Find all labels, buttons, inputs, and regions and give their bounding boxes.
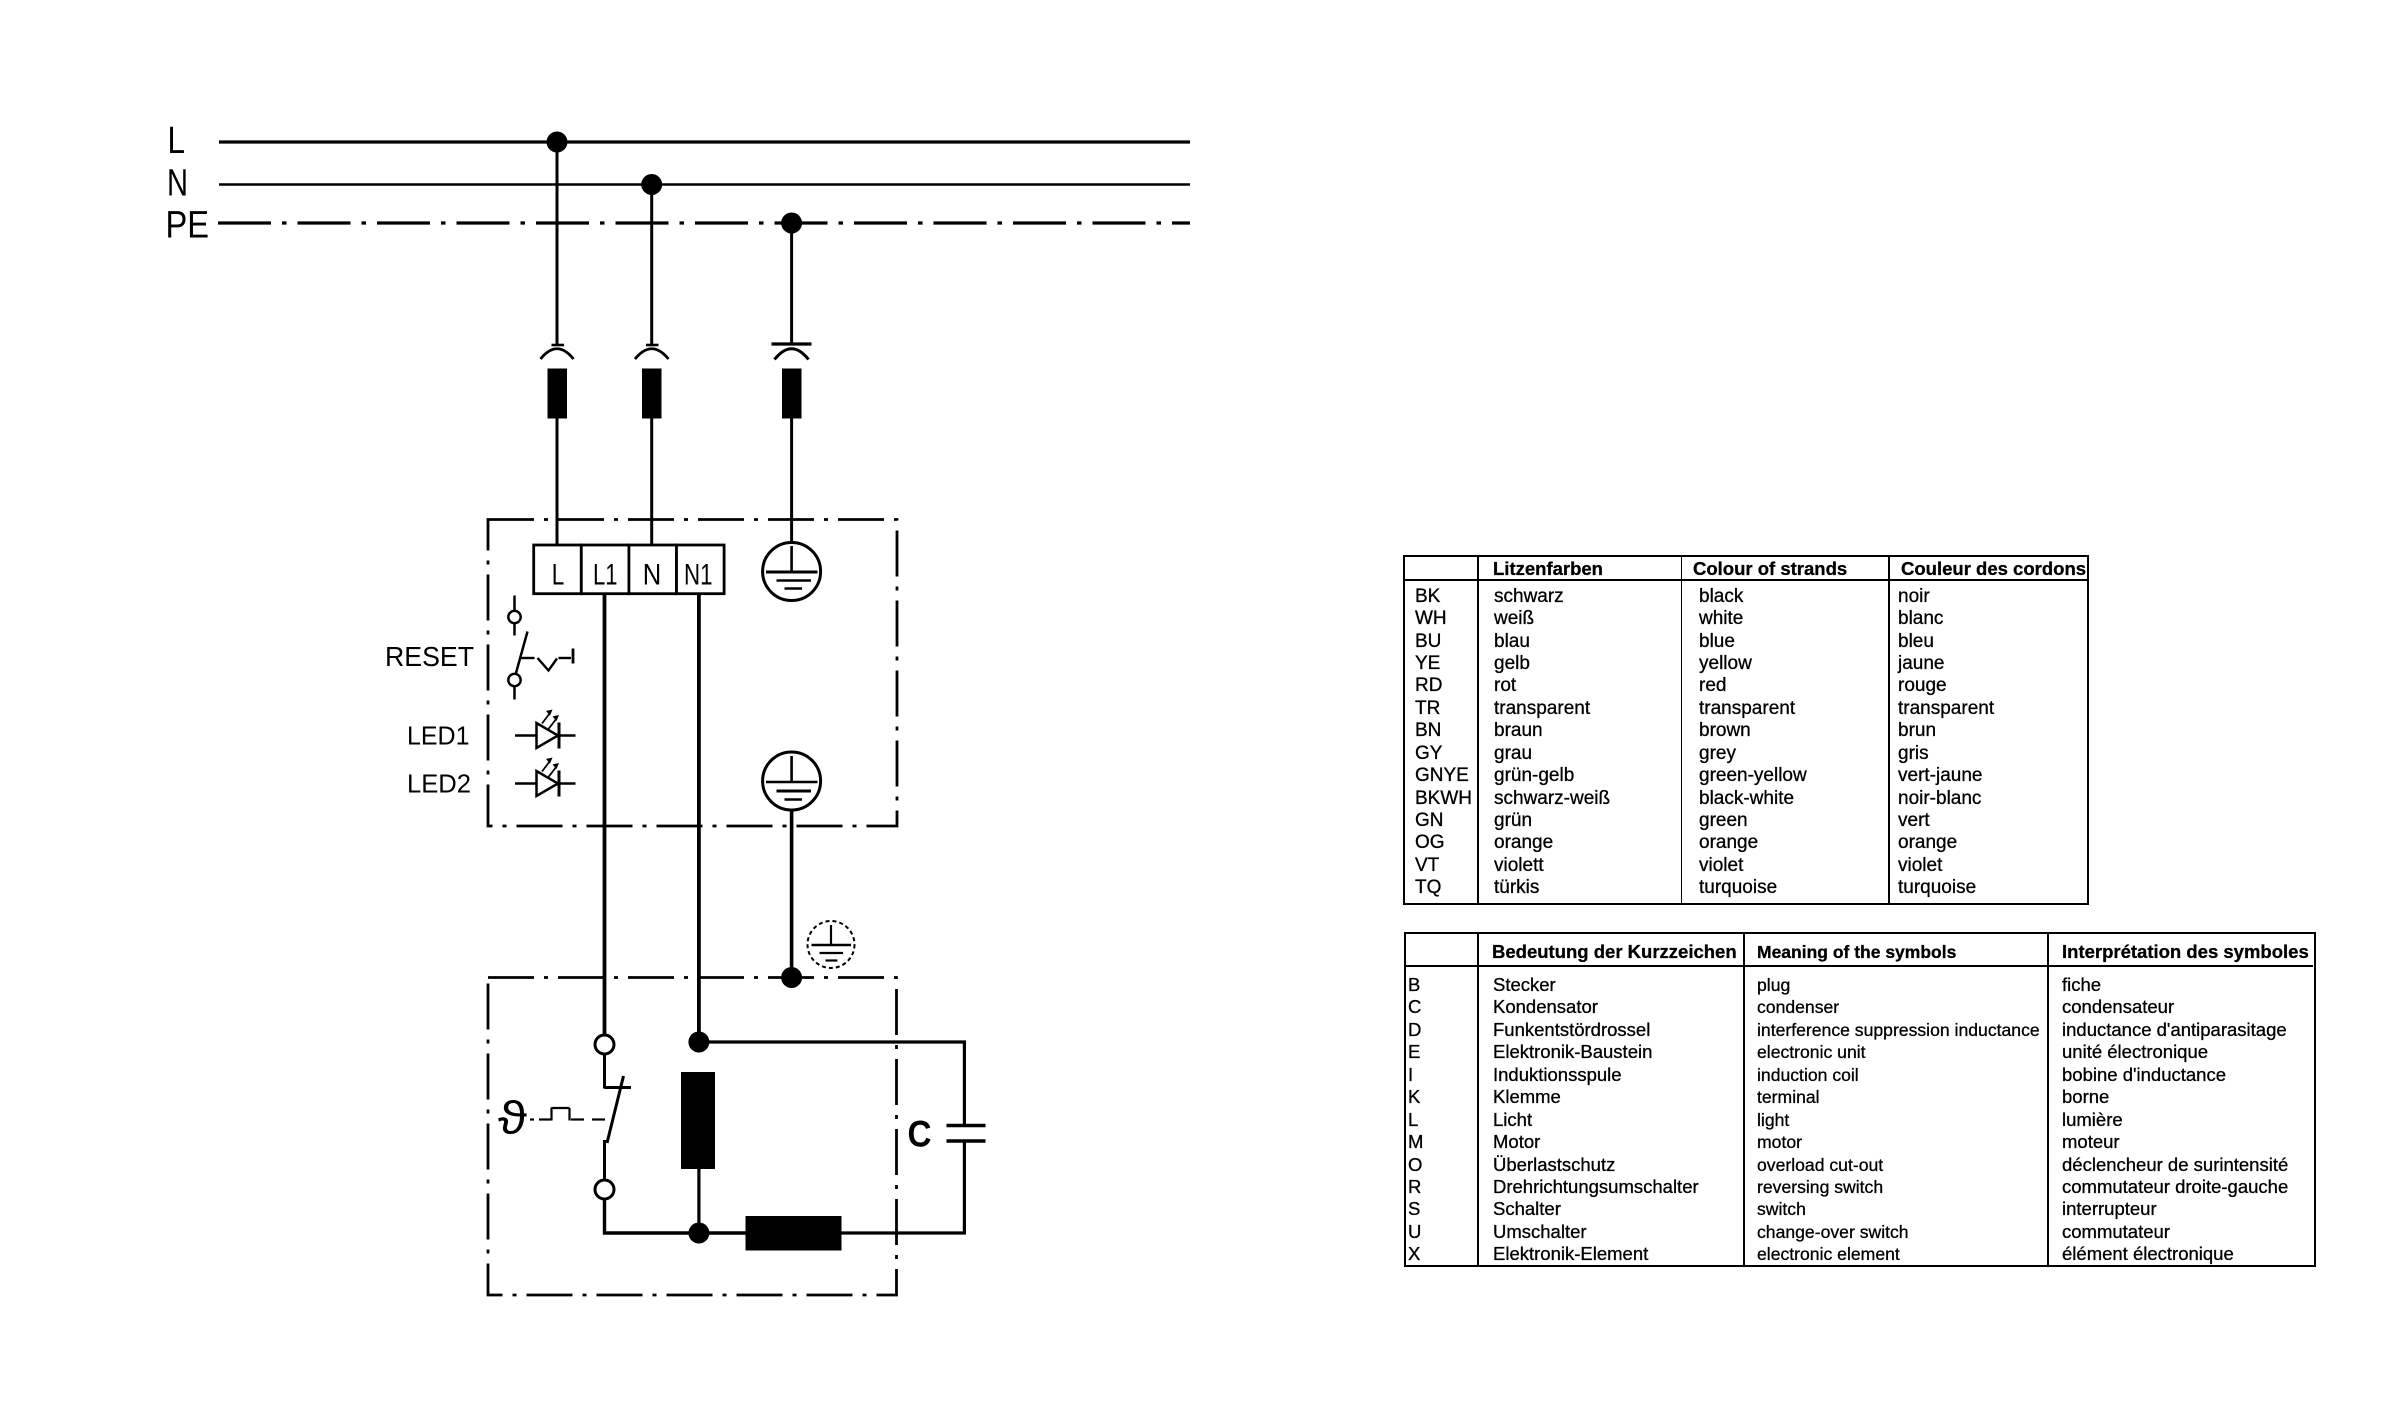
table 1 frame (1403, 555, 2090, 906)
table 2 column: french (2062, 974, 2288, 1266)
svg-text:N: N (167, 163, 188, 205)
thermal switch O: wire below circle (603, 1054, 606, 1089)
wire L1 from terminal to thermal switch (603, 594, 607, 1035)
wire capacitor to bottom (841, 1141, 964, 1233)
table 1 column: french (1898, 586, 1994, 900)
terminal K N1 cell (677, 545, 725, 594)
table 2 frame (1404, 932, 2316, 1267)
plug contact B N: pin cap (646, 344, 659, 347)
plug contact B PE: T-bar (772, 342, 812, 345)
wire N1 dot to capacitor branch (699, 1042, 965, 1126)
wire PE to earth symbol (790, 419, 793, 544)
table 1 header separator (1404, 579, 2089, 581)
thermal switch O: blade (607, 1076, 624, 1143)
capacitor C: bottom plate (947, 1139, 986, 1142)
wire below heater (697, 1169, 700, 1233)
protective earth symbol 1: bar short (785, 587, 803, 589)
LED1: emission arrow b (549, 715, 560, 729)
reset switch S: lower contact circle (508, 674, 520, 686)
reset switch S: lower stub (513, 686, 516, 699)
reset switch S: stub below upper circle (513, 623, 516, 635)
table 2 headers (1492, 944, 1737, 960)
reset switch S: blade (516, 632, 528, 674)
svg-text:L: L (552, 559, 565, 592)
table 1 vertical separator 3 (1888, 556, 1890, 905)
LED1: cathode bar (558, 723, 561, 749)
junction dot on PE (781, 213, 802, 234)
wire PE drop (790, 223, 793, 343)
svg-text:LED1: LED1 (407, 721, 470, 751)
wire PE rail (218, 221, 1190, 224)
protective earth symbol 3: stem (830, 925, 832, 945)
LED2: anode wire (515, 782, 537, 785)
table 1 column: english (1699, 586, 1807, 900)
terminal K L cell (534, 545, 582, 594)
inductance element (filled rect horizontal) (746, 1216, 842, 1251)
protective earth symbol 3: bar mid (820, 952, 844, 954)
motor unit M enclosure (dash-dot box 2) (488, 978, 897, 1296)
LED2: cathode wire (559, 782, 576, 785)
table 2 column: letters (1408, 974, 1423, 1266)
plug contact B PE: socket arc (775, 349, 809, 360)
svg-text:RESET: RESET (385, 641, 474, 672)
terminal K N cell (629, 545, 677, 594)
fuse pin PE (filled) (782, 369, 802, 419)
capacitor C: top plate (947, 1124, 986, 1127)
LED1: cathode wire (559, 734, 576, 737)
protective earth symbol 1: bar mid (777, 579, 812, 581)
protective earth symbol 2: circle (763, 752, 821, 810)
LED1: anode wire (515, 734, 537, 737)
table 1 vertical separator 1 (1477, 556, 1479, 905)
heater element (filled rect vertical) (681, 1072, 715, 1169)
protective earth symbol 2: stem (790, 756, 793, 782)
junction dot on L (547, 132, 568, 153)
svg-text:ϑ: ϑ (498, 1092, 527, 1144)
protective earth symbol 1: circle (763, 543, 821, 601)
electronic unit E enclosure (dash-dot box 1) (488, 520, 897, 827)
thermal switch O: actuator dashes (530, 1108, 605, 1121)
table 2 vertical separator 2 (1743, 933, 1745, 1267)
plug contact B L: pin cap (552, 344, 565, 347)
wire earth2 down to motor unit (790, 810, 794, 978)
wire N rail (219, 183, 1190, 186)
wire N to terminal (650, 419, 653, 547)
protective earth symbol 1: stem (790, 546, 793, 572)
reset switch S: upper contact circle (508, 611, 520, 623)
LED1: emission arrow a (542, 710, 553, 724)
wire L drop (556, 142, 559, 346)
svg-text:LED2: LED2 (407, 769, 471, 799)
reset switch S: manual actuator bar (572, 649, 575, 664)
wire L rail (219, 140, 1190, 143)
table 2 column: german (1493, 974, 1699, 1266)
table 1 column: codes (1415, 586, 1472, 900)
svg-text:C: C (908, 1114, 932, 1155)
table 1 vertical separator 2 (1681, 556, 1683, 905)
protective earth symbol 1: bar long (766, 571, 818, 574)
wire N1 from terminal down (697, 594, 701, 1042)
junction dot bottom (688, 1223, 709, 1244)
plug contact B N: socket arc (635, 349, 669, 359)
protective earth symbol 2: bar short (785, 798, 803, 800)
table 2 vertical separator 3 (2047, 933, 2049, 1267)
fuse pin N (filled) (642, 369, 662, 419)
fuse pin L (filled) (548, 369, 568, 419)
LED2: emission arrow a (542, 758, 553, 772)
thermal switch O: lower contact circle (595, 1180, 614, 1199)
reset switch S: actuator link left (521, 657, 535, 659)
svg-text:N1: N1 (684, 559, 713, 592)
plug contact B L: socket arc (541, 349, 574, 359)
LED1: triangle (537, 723, 559, 748)
reset switch S: upper stub (513, 596, 516, 611)
svg-text:N: N (643, 559, 662, 592)
table 2 header separator (1405, 965, 2313, 967)
LED2: cathode bar (558, 771, 561, 797)
svg-text:L1: L1 (593, 559, 618, 592)
protective earth symbol 2: bar long (766, 781, 818, 784)
thermal switch O: wire above lower circle (603, 1140, 606, 1180)
wire bottom run (605, 1199, 748, 1233)
junction dot PE on box 2 (781, 967, 802, 988)
wire N drop (650, 185, 653, 347)
table 2 vertical separator 1 (1477, 933, 1479, 1267)
protective earth symbol 3: circle (dashed) (808, 921, 855, 968)
svg-text:PE: PE (166, 205, 210, 247)
thermal switch O: seat corner (605, 1086, 632, 1089)
junction dot N1 top (688, 1032, 709, 1053)
reset switch S: actuator link right (559, 657, 572, 659)
thermal switch O: upper contact circle (595, 1035, 614, 1054)
wire L to terminal (556, 419, 559, 547)
table 1 column: german (1494, 586, 1610, 900)
svg-text:L: L (168, 120, 186, 162)
protective earth symbol 3: bar short (826, 959, 838, 961)
LED2: emission arrow b (549, 763, 560, 777)
reset switch S: actuator spring zigzag (538, 658, 558, 671)
table 1 headers (1493, 561, 1603, 577)
terminal K L1 cell (581, 545, 629, 594)
protective earth symbol 2: bar mid (777, 790, 812, 793)
LED2: triangle (537, 771, 559, 796)
junction dot on N (641, 174, 662, 195)
protective earth symbol 3: bar long (812, 944, 852, 946)
table 2 column: english (1757, 974, 2040, 1266)
